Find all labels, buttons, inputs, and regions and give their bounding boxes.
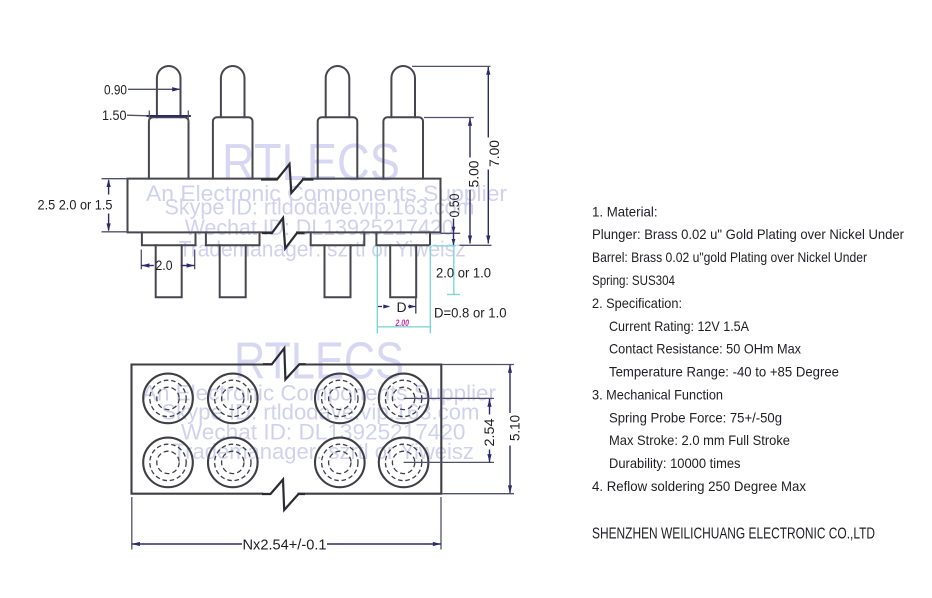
svg-text:2.0 or 1.0: 2.0 or 1.0 — [436, 266, 491, 281]
svg-text:Contact Resistance: 50 OHm Max: Contact Resistance: 50 OHm Max — [609, 341, 801, 357]
svg-text:Spring: SUS304: Spring: SUS304 — [592, 272, 675, 288]
svg-text:2.54: 2.54 — [482, 418, 497, 447]
svg-text:0.90: 0.90 — [104, 82, 127, 97]
dimension 0.50 step height — [441, 194, 492, 246]
dimension 5.00 pin above board — [424, 118, 482, 244]
bottom view body outline — [132, 365, 442, 494]
svg-text:1. Material:: 1. Material: — [592, 203, 658, 219]
svg-text:1.50: 1.50 — [102, 108, 127, 123]
pogo pin 2 plunger — [221, 66, 245, 117]
svg-text:4. Reflow soldering 250 Degree: 4. Reflow soldering 250 Degree Max — [592, 478, 806, 494]
svg-text:5.10: 5.10 — [508, 415, 523, 441]
dimension D tail diameter — [378, 298, 416, 316]
pogo pin 1 plunger — [157, 66, 181, 117]
svg-text:3. Mechanical Function: 3. Mechanical Function — [592, 387, 723, 403]
svg-text:D: D — [397, 299, 407, 315]
svg-text:Max Stroke: 2.0 mm Full Stroke: Max Stroke: 2.0 mm Full Stroke — [609, 432, 790, 448]
pogo pin 2 solder step — [206, 232, 260, 245]
pogo pin 4 solder step — [376, 232, 430, 245]
pogo pin 3 barrel — [318, 117, 358, 178]
svg-text:Trademanager: szrtl or Yiweisz: Trademanager: szrtl or Yiweisz — [179, 237, 466, 262]
svg-text:Durability: 10000 times: Durability: 10000 times — [609, 455, 741, 471]
break symbol bottom-view top edge — [263, 348, 306, 379]
contact 2 row 1 — [208, 374, 258, 424]
pogo pin 3 solder step — [311, 232, 365, 245]
svg-text:2.0: 2.0 — [156, 258, 173, 273]
pogo pin 2 tail — [220, 245, 246, 297]
contact 3 row 2 — [315, 438, 365, 488]
contact 4 row 1 — [379, 374, 429, 424]
svg-text:D=0.8 or 1.0: D=0.8 or 1.0 — [434, 305, 507, 320]
svg-text:Temperature Range: -40 to +85: Temperature Range: -40 to +85 Degree — [609, 364, 839, 380]
connector housing body — [128, 179, 441, 233]
pogo pin 4 barrel — [383, 117, 423, 178]
svg-text:2. Specification:: 2. Specification: — [592, 295, 682, 311]
svg-text:SHENZHEN WEILICHUANG ELECTRONI: SHENZHEN WEILICHUANG ELECTRONIC CO.,LTD — [592, 526, 875, 543]
pogo pin 2 barrel — [213, 117, 253, 178]
dimension 2.54 row pitch — [404, 398, 497, 462]
svg-text:2.5 2.0 or 1.5: 2.5 2.0 or 1.5 — [38, 198, 113, 213]
pogo pin 1 barrel — [149, 117, 189, 178]
pogo pin 1 solder step — [142, 232, 196, 245]
svg-text:Nx2.54+/-0.1: Nx2.54+/-0.1 — [243, 538, 327, 554]
dimension 2.0 or 1.0 tail length (teal) — [434, 246, 492, 295]
svg-text:0.50: 0.50 — [447, 194, 462, 218]
dimension 2.5 2.0 or 1.5 housing height — [38, 179, 128, 232]
dimension Nx2.54 total length — [132, 497, 441, 554]
pogo pin 4 plunger — [391, 66, 415, 117]
svg-text:Barrel: Brass 0.02 u"gold Plat: Barrel: Brass 0.02 u"gold Plating over N… — [592, 249, 867, 265]
dimension 0.90 plunger diameter — [104, 82, 181, 97]
contact 4 row 2 — [379, 438, 429, 488]
pogo pin 3 tail — [325, 245, 351, 297]
watermark upper RTLECS — [146, 134, 507, 262]
svg-text:7.00: 7.00 — [487, 140, 502, 167]
contact 2 row 2 — [208, 438, 258, 488]
contact 3 row 1 — [315, 374, 365, 424]
break symbol housing bottom — [262, 218, 305, 249]
pogo pin 3 plunger — [326, 66, 350, 117]
svg-text:Plunger: Brass 0.02 u" Gold Pl: Plunger: Brass 0.02 u" Gold Plating over… — [592, 226, 904, 242]
dimension 5.10 body width — [441, 365, 522, 494]
break symbol housing top — [261, 164, 314, 193]
dimension 2.0 step width — [141, 250, 194, 274]
pogo pin 4 tail — [390, 245, 416, 297]
contact 1 row 1 — [143, 374, 193, 424]
dimension 1.50 barrel diameter — [102, 108, 191, 123]
specification text block — [592, 203, 904, 542]
svg-text:Current Rating: 12V 1.5A: Current Rating: 12V 1.5A — [609, 318, 750, 334]
svg-text:5.00: 5.00 — [467, 161, 482, 188]
svg-text:Spring Probe Force: 75+/-50g: Spring Probe Force: 75+/-50g — [609, 409, 782, 425]
dimension 7.00 overall height — [412, 66, 502, 243]
contact 1 row 2 — [143, 438, 193, 488]
dimension 2.00 tail pitch (teal, magenta label) — [377, 245, 430, 334]
svg-text:2.00: 2.00 — [395, 318, 410, 329]
pogo pin 1 tail — [156, 245, 182, 297]
break symbol bottom-view bottom edge — [262, 480, 305, 511]
watermark lower RTLECS — [142, 333, 496, 464]
